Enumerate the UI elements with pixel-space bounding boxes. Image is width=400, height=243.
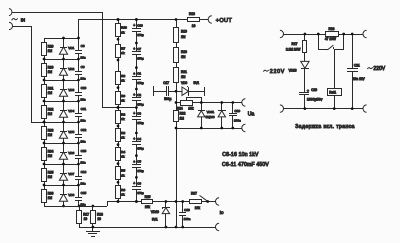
- svg-text:C13: C13: [81, 149, 87, 153]
- wire middle capacitor chain: [136, 20, 138, 202]
- svg-text:1M: 1M: [181, 55, 186, 59]
- capacitor C13: [75, 143, 87, 164]
- resistor R37: [190, 192, 208, 210]
- svg-text:470µ: 470µ: [137, 169, 144, 173]
- svg-text:R21: R21: [181, 70, 187, 74]
- resistor R34: [42, 148, 54, 161]
- connector IN bottom: [9, 22, 12, 29]
- svg-text:R7: R7: [121, 46, 125, 50]
- svg-text:C21: C21: [354, 63, 360, 67]
- svg-text:1M: 1M: [48, 70, 53, 74]
- svg-text:Ua: Ua: [248, 111, 255, 117]
- svg-text:C1: C1: [137, 72, 141, 76]
- diode VD1: [59, 46, 74, 55]
- diode VD8: [59, 193, 74, 202]
- svg-text:10k: 10k: [145, 205, 151, 209]
- top rail dots: [117, 18, 178, 21]
- capacitor C3: [132, 112, 144, 126]
- svg-text:R37: R37: [191, 192, 197, 196]
- resistor R23: [188, 12, 200, 28]
- svg-text:1M: 1M: [48, 133, 53, 137]
- zener VD12: [218, 102, 226, 128]
- svg-text:470µ: 470µ: [137, 33, 144, 37]
- resistor R31: [42, 85, 54, 98]
- svg-text:C12: C12: [81, 128, 87, 132]
- capacitor C1: [132, 72, 144, 86]
- svg-text:C5: C5: [137, 160, 141, 164]
- diode VD2: [59, 67, 74, 76]
- wire top output rail: [78, 20, 208, 39]
- resistor R3: [116, 129, 126, 142]
- resistor R6: [116, 186, 126, 199]
- label delay note: [295, 124, 355, 130]
- label mains right: [367, 66, 385, 72]
- connector mains left top: [280, 30, 284, 37]
- node stub right of VD9: [204, 87, 206, 96]
- wire mains top: [283, 34, 363, 36]
- svg-text:R20: R20: [181, 50, 187, 54]
- capacitor C2: [132, 93, 144, 107]
- resistor R35: [42, 169, 54, 182]
- resistor R2: [116, 111, 126, 124]
- svg-text:10n: 10n: [80, 97, 85, 101]
- svg-text:1k: 1k: [121, 79, 125, 83]
- capacitor C4: [132, 137, 144, 151]
- middle resistor chain dots: [117, 18, 120, 203]
- svg-text:C19: C19: [234, 109, 240, 113]
- resistor R28: [325, 27, 339, 41]
- relay contact: [318, 34, 344, 50]
- resistor R20: [174, 48, 188, 63]
- label Ua: [248, 111, 255, 117]
- svg-text:C2: C2: [137, 93, 141, 97]
- capacitor C20: [299, 88, 323, 109]
- svg-text:+OUT: +OUT: [216, 18, 233, 24]
- capacitor C17: [153, 81, 182, 101]
- svg-text:+: +: [133, 24, 135, 28]
- svg-text:1M: 1M: [48, 49, 53, 53]
- svg-text:R8: R8: [121, 74, 125, 78]
- resistor R4: [116, 148, 126, 161]
- capacitor C8: [75, 38, 86, 59]
- svg-text:1M: 1M: [48, 91, 53, 95]
- svg-text:10k: 10k: [188, 107, 194, 111]
- svg-text:470µ: 470µ: [137, 147, 144, 151]
- label Io: [220, 210, 224, 216]
- svg-text:VD3: VD3: [68, 88, 74, 92]
- capacitor C7: [132, 47, 144, 61]
- svg-text:1M: 1M: [181, 35, 186, 39]
- svg-text:Io: Io: [220, 210, 224, 216]
- svg-text:470µ: 470µ: [137, 121, 144, 125]
- svg-text:220V: 220V: [373, 66, 385, 72]
- capacitor C14: [75, 164, 87, 185]
- svg-text:C4: C4: [137, 137, 141, 141]
- connector +OUT: [208, 16, 232, 24]
- capacitor C6: [132, 181, 144, 195]
- svg-text:C8-16 10n 1kV: C8-16 10n 1kV: [222, 152, 259, 158]
- svg-text:R22: R22: [180, 112, 186, 116]
- zener VD9: [181, 81, 204, 96]
- resistor R27: [286, 34, 307, 53]
- svg-text:VD11: VD11: [207, 110, 215, 114]
- svg-text:10n: 10n: [80, 160, 85, 164]
- wire bottom return: [79, 227, 216, 229]
- svg-text:R17: R17: [83, 212, 89, 216]
- diode VD3: [59, 88, 74, 97]
- svg-text:10n: 10n: [80, 76, 85, 80]
- svg-text:R36: R36: [48, 191, 54, 195]
- svg-text:10n: 10n: [80, 139, 85, 143]
- resistor R21: [174, 68, 188, 83]
- svg-text:C17: C17: [163, 81, 169, 85]
- svg-text:R2: R2: [121, 112, 125, 116]
- svg-text:1k: 1k: [121, 136, 125, 140]
- svg-text:C18: C18: [184, 208, 190, 212]
- svg-text:1000µ50v: 1000µ50v: [307, 97, 323, 101]
- capacitor C16: [132, 24, 144, 38]
- svg-text:1M: 1M: [48, 175, 53, 179]
- capacitor C5: [132, 160, 144, 174]
- capacitor C15: [75, 185, 87, 206]
- resistor R25: [142, 195, 153, 209]
- connector mains right bottom: [363, 105, 367, 112]
- svg-text:1M: 1M: [48, 196, 53, 200]
- svg-text:+: +: [133, 93, 135, 97]
- svg-text:R4: R4: [121, 150, 125, 154]
- svg-text:10n 1kV: 10n 1kV: [353, 77, 366, 81]
- svg-text:R28: R28: [329, 27, 335, 31]
- svg-text:47 20W: 47 20W: [325, 37, 336, 41]
- svg-text:C16: C16: [137, 24, 143, 28]
- svg-text:R29: R29: [48, 44, 54, 48]
- middle capacitor chain dots: [117, 18, 138, 203]
- svg-text:R31: R31: [48, 86, 54, 90]
- relay coil Rel1: [328, 49, 342, 109]
- svg-text:1k: 1k: [121, 193, 125, 197]
- svg-text:R16: R16: [121, 26, 127, 30]
- connector Ua bottom: [242, 124, 246, 131]
- svg-text:R9: R9: [121, 94, 125, 98]
- wire mains bottom: [283, 108, 363, 110]
- diode VD5: [59, 130, 74, 139]
- svg-text:+: +: [133, 112, 135, 116]
- svg-text:500µ: 500µ: [164, 97, 171, 101]
- svg-text:VD7: VD7: [68, 172, 74, 176]
- svg-text:C20: C20: [311, 88, 317, 92]
- label ~ IN: [12, 17, 25, 22]
- Ua rail dots: [175, 101, 235, 129]
- svg-text:2.2M 10W: 2.2M 10W: [286, 47, 301, 51]
- capacitor C21: [347, 34, 365, 109]
- svg-text:470µ: 470µ: [137, 57, 144, 61]
- svg-text:10n: 10n: [80, 181, 85, 185]
- svg-text:VD8: VD8: [68, 193, 74, 197]
- svg-text:1k: 1k: [121, 117, 125, 121]
- svg-text:R32: R32: [48, 107, 54, 111]
- svg-text:КЦ106: КЦ106: [206, 115, 215, 119]
- resistor R32: [42, 106, 54, 119]
- svg-text:10: 10: [192, 24, 196, 28]
- VD9 row dot: [175, 90, 178, 93]
- connector IN top: [9, 9, 12, 16]
- svg-text:10n: 10n: [80, 118, 85, 122]
- svg-text:VD4: VD4: [68, 109, 74, 113]
- svg-text:R25: R25: [145, 195, 151, 199]
- capacitor C16: [179, 202, 191, 227]
- svg-text:VD5: VD5: [68, 130, 74, 134]
- svg-text:10: 10: [97, 217, 101, 221]
- resistor R18: [91, 206, 104, 227]
- resistor R9: [116, 92, 126, 105]
- connector mains left bottom: [280, 105, 284, 112]
- zener VD10: [151, 202, 170, 227]
- resistor R33: [42, 127, 54, 140]
- svg-text:C6: C6: [137, 181, 141, 185]
- resistor R7: [116, 45, 126, 58]
- wire ladder bottom rail to Io node: [44, 202, 216, 207]
- svg-text:10n: 10n: [80, 55, 85, 59]
- svg-text:C3: C3: [137, 112, 141, 116]
- wire middle resistor chain: [118, 20, 120, 202]
- svg-text:+: +: [133, 47, 135, 51]
- svg-text:R33: R33: [48, 128, 54, 132]
- svg-text:5V1: 5V1: [152, 218, 158, 222]
- wire Ua bottom rail: [176, 128, 242, 130]
- svg-text:1k: 1k: [121, 99, 125, 103]
- svg-text:C11: C11: [81, 107, 87, 111]
- svg-text:+: +: [133, 137, 135, 141]
- svg-text:1M: 1M: [48, 154, 53, 158]
- svg-text:R27: R27: [292, 42, 298, 46]
- svg-text:R18: R18: [97, 212, 103, 216]
- svg-text:1k: 1k: [121, 30, 125, 34]
- svg-text:Rel1: Rel1: [329, 91, 336, 95]
- svg-text:VD10: VD10: [151, 210, 159, 214]
- connector Ua top: [242, 99, 246, 106]
- svg-text:C10: C10: [81, 86, 87, 90]
- diode VD6: [59, 151, 74, 160]
- svg-text:1k: 1k: [121, 155, 125, 159]
- svg-text:C14: C14: [81, 170, 87, 174]
- diode VD7: [59, 172, 74, 181]
- diode VD13: [289, 52, 310, 92]
- resistor R19: [174, 28, 188, 43]
- svg-text:R35: R35: [48, 170, 54, 174]
- wire left ladder diode chain: [63, 38, 65, 206]
- svg-text:100n: 100n: [234, 119, 241, 123]
- capacitor C10: [75, 80, 87, 101]
- svg-text:C6-11 470mF 450V: C6-11 470mF 450V: [222, 162, 269, 168]
- svg-text:VD6: VD6: [68, 151, 74, 155]
- ladder junction dots: [43, 37, 95, 208]
- svg-text:10: 10: [84, 217, 88, 221]
- label mains left: [263, 69, 285, 75]
- svg-text:C7: C7: [137, 47, 141, 51]
- svg-text:C8: C8: [81, 44, 85, 48]
- svg-text:+: +: [133, 72, 135, 76]
- svg-text:R30: R30: [48, 65, 54, 69]
- svg-text:10n: 10n: [80, 202, 85, 206]
- resistor R17: [77, 206, 90, 227]
- svg-text:100n: 100n: [184, 217, 191, 221]
- svg-text:470µ: 470µ: [137, 191, 144, 195]
- zener VD11: [198, 102, 215, 128]
- resistor R36: [42, 190, 54, 203]
- potentiometer R24: [177, 97, 202, 111]
- wire IN bottom to ladder mid rail: [12, 26, 44, 123]
- svg-text:R6: R6: [121, 188, 125, 192]
- Io node dots: [117, 200, 209, 203]
- diode VD4: [59, 109, 74, 118]
- resistor R16: [116, 24, 128, 37]
- resistor R22: [174, 111, 186, 122]
- svg-text:220V: 220V: [270, 69, 285, 75]
- node stub left of C17: [153, 86, 155, 96]
- note capacitor values: [222, 152, 269, 168]
- svg-text:R3: R3: [121, 131, 125, 135]
- svg-text:VD9: VD9: [181, 81, 187, 85]
- capacitor C9: [75, 59, 86, 80]
- svg-text:+: +: [133, 160, 135, 164]
- svg-text:1k: 1k: [121, 173, 125, 177]
- svg-text:1M: 1M: [181, 75, 186, 79]
- resistor R29: [42, 43, 54, 56]
- resistor R8: [116, 72, 126, 85]
- ground: [86, 227, 100, 237]
- svg-text:+: +: [133, 182, 135, 186]
- svg-text:VD1: VD1: [68, 46, 74, 50]
- wire Ua top rail: [176, 102, 242, 104]
- connector Io top: [216, 198, 220, 205]
- svg-text:C9: C9: [81, 65, 85, 69]
- svg-text:5V1: 5V1: [194, 81, 200, 85]
- svg-text:R23: R23: [189, 12, 195, 16]
- wire left ladder resistor chain: [44, 38, 46, 206]
- svg-text:10k: 10k: [195, 206, 201, 210]
- capacitor C11: [75, 101, 86, 122]
- connector Io bottom: [216, 223, 220, 230]
- svg-text:1M: 1M: [180, 117, 185, 121]
- svg-text:VD2: VD2: [68, 67, 74, 71]
- connector mains right top: [363, 30, 367, 37]
- capacitor C19: [229, 102, 241, 128]
- bottom wire dots: [92, 226, 184, 229]
- wire input riser to middle ladder tap: [102, 12, 136, 108]
- mains dots: [304, 33, 354, 110]
- svg-text:R19: R19: [181, 30, 187, 34]
- svg-text:IN: IN: [21, 17, 25, 22]
- svg-text:470µ: 470µ: [137, 81, 144, 85]
- svg-text:470µ: 470µ: [137, 103, 144, 107]
- svg-text:VD13: VD13: [289, 68, 297, 72]
- resistor R5: [116, 167, 126, 180]
- wire IN top to middle column: [12, 12, 102, 14]
- capacitor C12: [75, 122, 87, 143]
- svg-text:R5: R5: [121, 169, 125, 173]
- svg-text:+: +: [307, 89, 309, 93]
- svg-text:1M: 1M: [48, 112, 53, 116]
- svg-text:1k: 1k: [121, 51, 125, 55]
- wire right column: [176, 20, 178, 227]
- svg-text:Задержка вкл. транса: Задержка вкл. транса: [295, 124, 355, 130]
- svg-text:R34: R34: [48, 149, 54, 153]
- svg-text:C15: C15: [81, 191, 87, 195]
- resistor R30: [42, 64, 54, 77]
- wire left ladder rails: [44, 39, 78, 207]
